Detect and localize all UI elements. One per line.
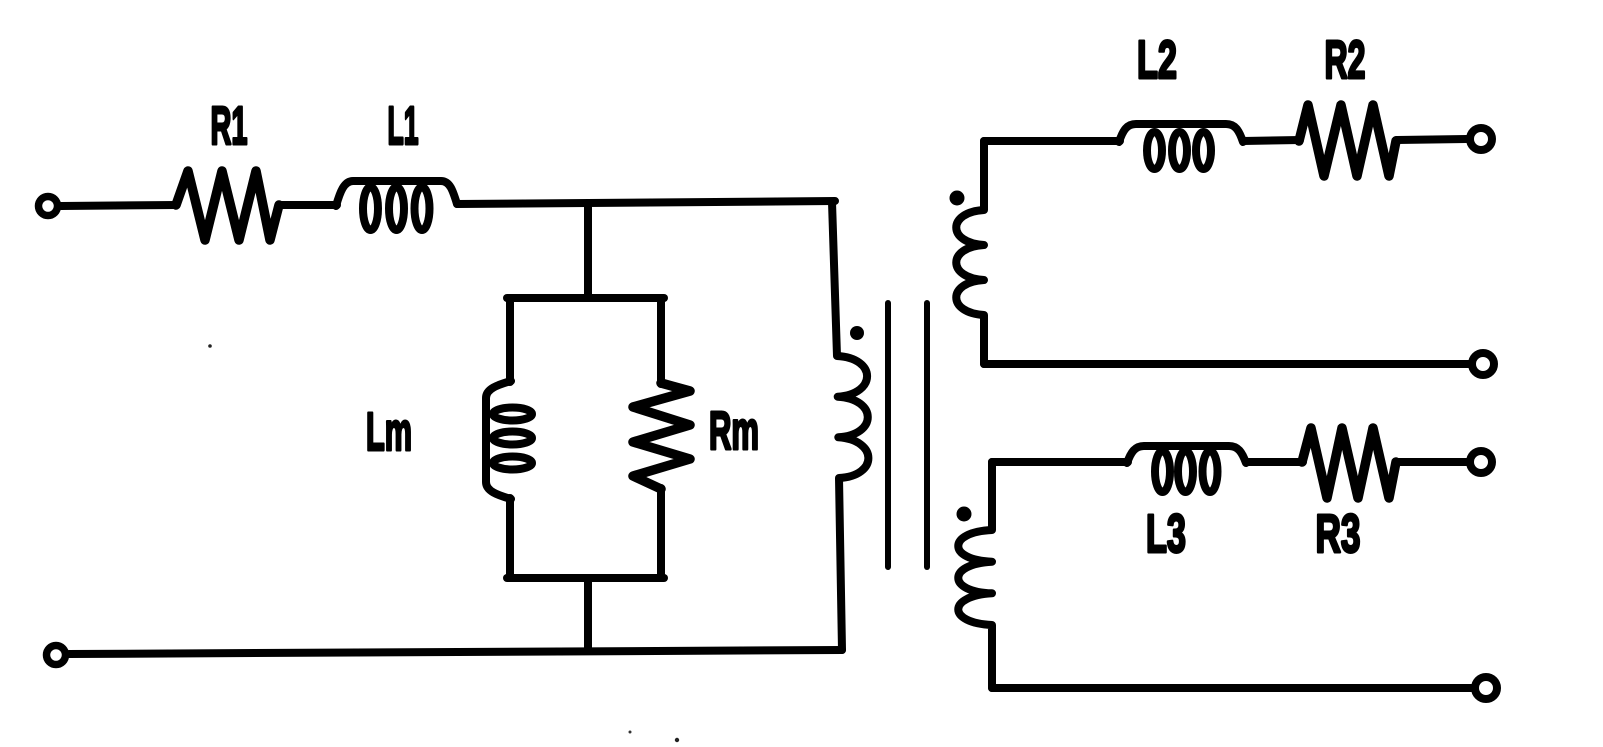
wire R3 to terminal	[1396, 458, 1467, 466]
terminal secondary 2 plus	[1470, 451, 1492, 473]
scan speck	[208, 344, 212, 348]
terminal secondary 1 plus	[1470, 128, 1492, 150]
node stub box bottom to return wire	[584, 578, 592, 651]
wire L3 to R3	[1246, 458, 1303, 466]
wire left branch upper	[506, 298, 514, 382]
wire left branch lower	[506, 498, 514, 578]
svg-text:L3: L3	[1146, 504, 1186, 564]
svg-text:R2: R2	[1325, 30, 1366, 90]
resistor R3	[1302, 428, 1396, 498]
svg-text:Rm: Rm	[709, 401, 759, 461]
terminal input bottom-left	[47, 646, 66, 665]
svg-text:R3: R3	[1316, 504, 1361, 564]
svg-text:L1: L1	[388, 96, 419, 156]
wire secondary 1 top	[984, 137, 1120, 145]
scan speck	[629, 731, 632, 734]
wire R2 to terminal	[1396, 139, 1467, 140]
resistor R2	[1299, 105, 1396, 176]
inductor L1	[336, 181, 457, 230]
inductor Lm	[486, 381, 532, 499]
transformer core	[885, 303, 891, 567]
terminal secondary 2 minus	[1475, 677, 1497, 699]
primary phase dot	[850, 326, 864, 340]
wire box top rail	[507, 294, 664, 302]
wire right branch upper	[657, 298, 665, 384]
wire L1 to transformer primary	[457, 201, 835, 204]
wire secondary 2 return	[992, 684, 1472, 692]
wire bottom return	[69, 650, 842, 654]
scan speck	[675, 738, 679, 742]
svg-text:L2: L2	[1137, 30, 1177, 90]
terminal secondary 1 minus	[1472, 353, 1494, 375]
wire L2 to R2	[1243, 140, 1300, 141]
node stub down to magnetizing branch	[584, 204, 592, 298]
wire input to R1	[61, 205, 176, 206]
secondary 1 phase dot	[950, 191, 965, 206]
wire box bottom rail	[507, 574, 664, 582]
wire secondary 2 top	[992, 458, 1128, 466]
wire right branch lower	[657, 488, 665, 578]
transformer secondary 1 winding	[956, 141, 984, 364]
transformer primary winding	[832, 202, 868, 650]
svg-text:Lm: Lm	[366, 402, 412, 462]
resistor R1	[176, 171, 279, 240]
wire secondary 1 return	[984, 360, 1469, 368]
resistor Rm	[633, 383, 690, 489]
svg-text:R1: R1	[211, 96, 248, 156]
inductor L2	[1119, 124, 1243, 169]
inductor L3	[1127, 446, 1246, 492]
wire R1 to L1	[279, 201, 337, 209]
secondary 2 phase dot	[957, 507, 972, 522]
terminal input top-left	[39, 197, 58, 216]
transformer secondary 2 winding	[958, 462, 992, 688]
